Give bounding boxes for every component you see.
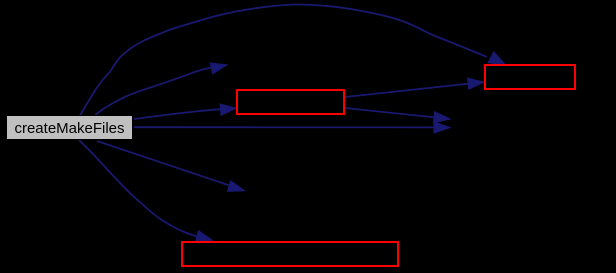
node createMakeFiles (gray box) <box>7 116 133 140</box>
arrowhead at hidden node C <box>228 181 245 192</box>
arrowhead into top edge of top-right box <box>488 52 506 65</box>
top-right red box node <box>485 65 575 89</box>
arrowhead into left edge of middle red box <box>220 104 236 115</box>
edge createMakeFiles to top-right box (big top arc) <box>80 4 487 115</box>
arrowhead into left edge of top-right box <box>468 78 485 89</box>
svg-text:createMakeFiles: createMakeFiles <box>14 120 124 137</box>
edge createMakeFiles to middle red box <box>134 109 221 119</box>
arrowhead at hidden node B (upper) <box>434 112 451 123</box>
edge middle red box to hidden node B <box>345 108 436 118</box>
arrowhead into top edge of bottom red box <box>196 231 213 242</box>
edge createMakeFiles to hidden node A (upper middle) <box>95 68 211 115</box>
arrowhead at hidden node A <box>210 63 227 74</box>
bottom red box node <box>182 242 398 266</box>
arrowhead at hidden node B (lower) <box>434 122 450 133</box>
middle red box node <box>237 90 344 114</box>
edge createMakeFiles to hidden node C (lower middle) <box>97 141 232 186</box>
edge middle red box to top-right box <box>345 84 470 98</box>
edge createMakeFiles to hidden node B (long horizontal) <box>134 126 436 128</box>
edge createMakeFiles to bottom red box (curve) <box>79 140 199 237</box>
